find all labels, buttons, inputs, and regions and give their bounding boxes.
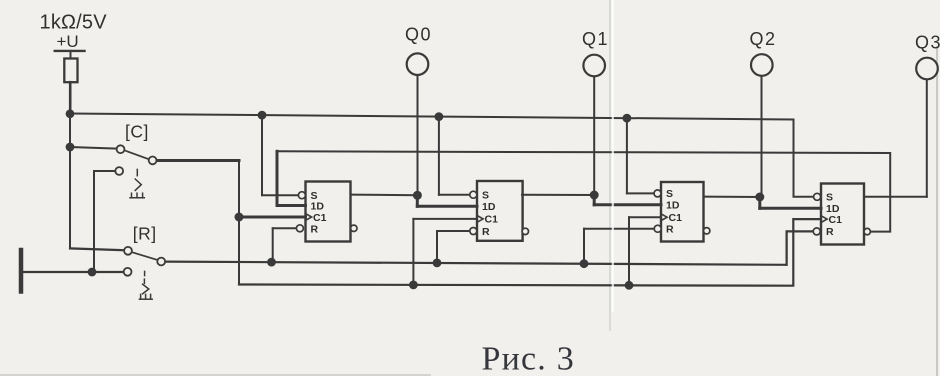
svg-text:Рис. 3: Рис. 3 (482, 341, 575, 376)
svg-text:S: S (826, 191, 833, 203)
svg-text:R: R (482, 226, 490, 238)
svg-text:Q2: Q2 (750, 29, 777, 49)
svg-text:+U: +U (57, 32, 79, 51)
svg-text:Q0: Q0 (405, 25, 432, 45)
svg-text:C1: C1 (829, 214, 843, 226)
svg-text:C1: C1 (485, 214, 499, 226)
svg-text:1D: 1D (311, 200, 325, 212)
svg-text:Q1: Q1 (582, 29, 609, 49)
svg-text:R: R (311, 223, 319, 235)
svg-text:R: R (666, 224, 674, 236)
svg-text:Q3: Q3 (915, 33, 940, 53)
svg-text:[C]: [C] (125, 121, 149, 141)
svg-text:[R]: [R] (133, 223, 157, 243)
svg-text:1D: 1D (482, 201, 496, 213)
svg-text:1D: 1D (666, 200, 680, 212)
svg-text:S: S (666, 188, 673, 200)
svg-text:R: R (826, 226, 834, 238)
svg-text:1kΩ/5V: 1kΩ/5V (40, 11, 108, 33)
svg-text:C1: C1 (313, 212, 327, 224)
svg-text:C1: C1 (669, 212, 683, 224)
svg-text:S: S (482, 189, 489, 201)
